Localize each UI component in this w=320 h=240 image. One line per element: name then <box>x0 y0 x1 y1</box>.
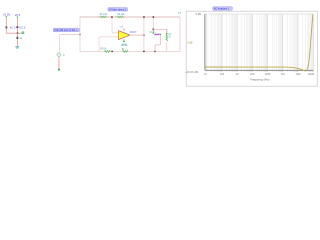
svg-text:RF 1k: RF 1k <box>121 45 128 47</box>
svg-text:V2 5: V2 5 <box>15 13 21 17</box>
svg-text:1K: 1K <box>236 72 239 76</box>
svg-text:0 dB: 0 dB <box>196 13 201 16</box>
svg-text:-20.00 dB: -20.00 dB <box>185 71 198 74</box>
svg-text:out: out <box>178 11 182 14</box>
svg-text:VOUT: VOUT <box>130 31 137 34</box>
svg-text:10M: 10M <box>295 72 300 76</box>
svg-text:V1 5V: V1 5V <box>3 12 11 16</box>
svg-text:AC Analysis 1: AC Analysis 1 <box>214 8 230 11</box>
svg-text:10K: 10K <box>250 72 255 76</box>
svg-text:LP filter demo 1: LP filter demo 1 <box>109 8 127 11</box>
svg-text:100: 100 <box>220 72 225 76</box>
svg-text:1M: 1M <box>281 72 285 76</box>
svg-text:Frequency (Hz): Frequency (Hz) <box>250 77 269 81</box>
svg-text:100M: 100M <box>308 72 315 76</box>
svg-text:VdB: VdB <box>187 41 192 45</box>
svg-text:100K: 100K <box>265 72 271 76</box>
svg-text:DC 5: DC 5 <box>19 26 25 30</box>
svg-text:Ctrl+Md text to Sel n: Ctrl+Md text to Sel n <box>54 29 78 32</box>
